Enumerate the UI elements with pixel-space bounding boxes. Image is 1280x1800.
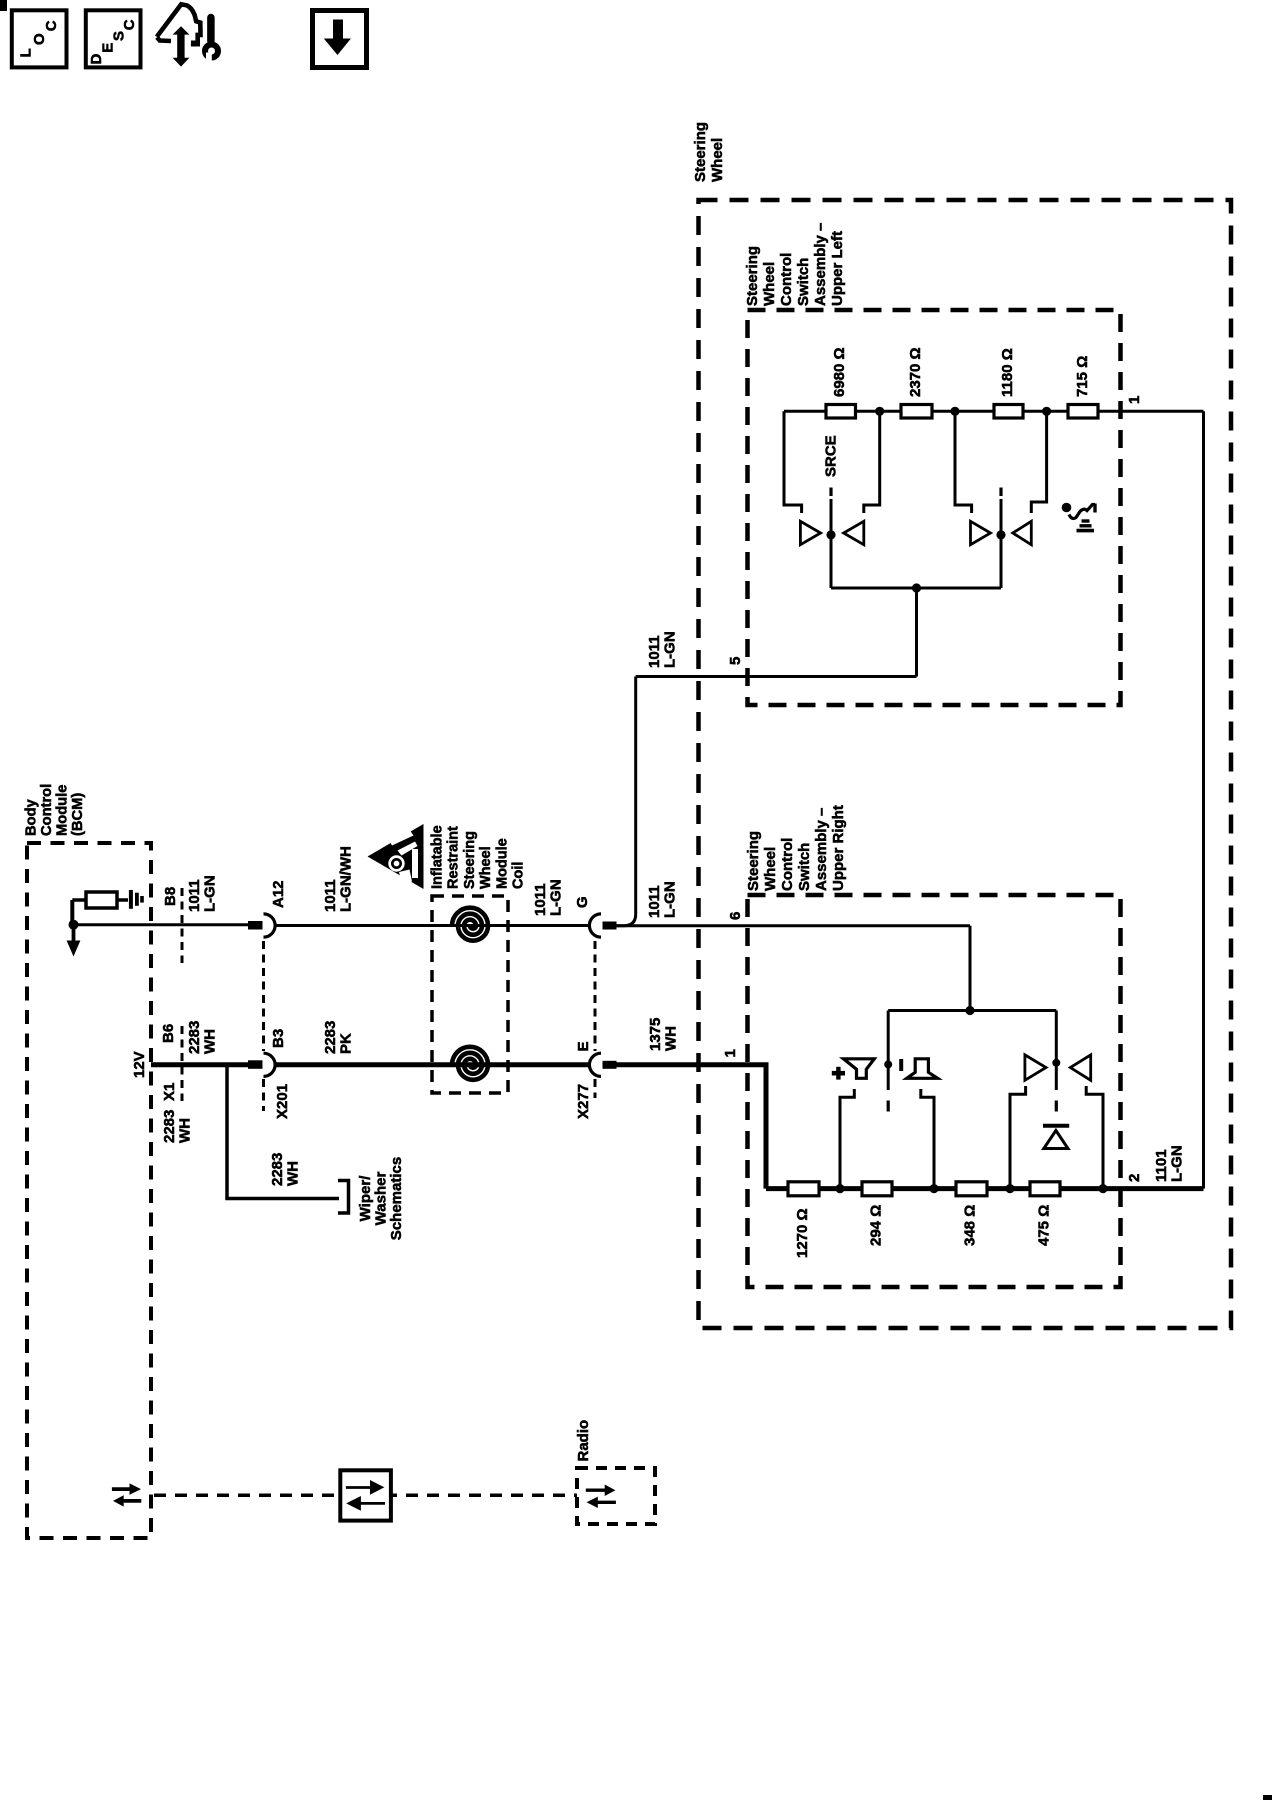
svg-text:12V: 12V — [131, 1051, 148, 1078]
svg-text:X1: X1 — [161, 1083, 178, 1101]
svg-text:B3: B3 — [270, 1029, 287, 1048]
svg-text:1011L-GN: 1011L-GN — [532, 879, 565, 916]
svg-text:L: L — [18, 48, 35, 57]
svg-text:1101L-GN: 1101L-GN — [1153, 1145, 1186, 1182]
svg-text:SRCE: SRCE — [823, 435, 840, 477]
svg-text:O: O — [31, 33, 48, 45]
svg-text:294 Ω: 294 Ω — [868, 1205, 885, 1246]
svg-text:1270 Ω: 1270 Ω — [794, 1208, 811, 1258]
svg-text:B8: B8 — [162, 887, 179, 906]
svg-text:1: 1 — [1126, 396, 1143, 404]
svg-text:B6: B6 — [160, 1024, 177, 1043]
svg-text:E: E — [100, 43, 117, 53]
svg-text:475 Ω: 475 Ω — [1036, 1205, 1053, 1246]
svg-text:2370 Ω: 2370 Ω — [907, 347, 924, 397]
svg-text:2: 2 — [1126, 1174, 1143, 1182]
svg-text:1: 1 — [722, 1049, 739, 1057]
svg-text:C: C — [121, 19, 138, 30]
svg-text:1180 Ω: 1180 Ω — [999, 348, 1016, 397]
svg-text:6: 6 — [727, 912, 744, 920]
svg-text:E: E — [575, 1041, 592, 1051]
svg-text:C: C — [43, 20, 60, 31]
svg-text:S: S — [110, 31, 127, 41]
svg-text:1011L-GN: 1011L-GN — [646, 631, 679, 668]
svg-text:6980 Ω: 6980 Ω — [831, 347, 848, 397]
svg-text:1011L-GN: 1011L-GN — [186, 875, 219, 912]
svg-text:X277: X277 — [575, 1084, 592, 1119]
svg-text:1011L-GN: 1011L-GN — [646, 881, 679, 918]
svg-text:D: D — [88, 54, 105, 65]
svg-text:X201: X201 — [274, 1084, 291, 1119]
svg-text:Radio: Radio — [575, 1420, 592, 1462]
svg-text:G: G — [574, 896, 591, 908]
svg-text:715 Ω: 715 Ω — [1074, 356, 1091, 397]
svg-text:5: 5 — [727, 657, 744, 665]
svg-text:348 Ω: 348 Ω — [962, 1205, 979, 1246]
svg-text:A12: A12 — [270, 880, 287, 908]
